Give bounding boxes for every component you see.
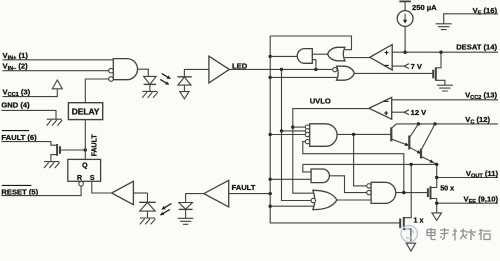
node junction bus G3 input bbox=[269, 133, 272, 136]
svg-text:VEE (9,10): VEE (9,10) bbox=[464, 195, 499, 206]
svg-text:+: + bbox=[384, 111, 388, 118]
wire VCC1 bbox=[3, 89, 58, 97]
wire DELAY up to input gate bbox=[85, 79, 109, 103]
svg-text:250 µA: 250 µA bbox=[412, 3, 437, 12]
transistor 50x DMOS bbox=[428, 186, 431, 199]
wire G1 output to bus bbox=[270, 55, 297, 57]
wire PD2 top stub bbox=[147, 193, 149, 202]
svg-text:R: R bbox=[77, 175, 82, 182]
ground LED1 rake bbox=[142, 91, 158, 97]
and-gate G3 drive AND bbox=[310, 124, 337, 147]
wire FAULT pin bbox=[1, 142, 57, 146]
svg-text:12 V: 12 V bbox=[411, 108, 428, 117]
wire G2b output to DESAT FET gate bbox=[354, 72, 433, 74]
node junction VEE bbox=[435, 202, 438, 205]
and-gate G0 input AND bbox=[113, 59, 137, 80]
node VCC2 pin 13 label bbox=[465, 90, 497, 101]
node junction bus G4b input bbox=[269, 205, 272, 208]
node junction x281 to G3 bbox=[280, 129, 283, 132]
or-gate G4b bbox=[313, 190, 337, 209]
svg-text:50 x: 50 x bbox=[440, 184, 454, 193]
node 7V source arrow bbox=[404, 64, 409, 69]
wire S input from fault buffer bbox=[92, 181, 112, 193]
node R input bubble bbox=[79, 181, 84, 186]
node DESAT pin 14 label bbox=[456, 43, 497, 52]
wire UVLO branch to G3 bubble1 bbox=[293, 126, 306, 128]
wire emitter node to VOUT bbox=[436, 164, 438, 177]
diode LED1 transmit bbox=[144, 76, 157, 84]
wire bus branch to G4b input3 bbox=[270, 205, 315, 207]
node VOUT pin 11 label bbox=[466, 169, 499, 180]
wire VOUT rail bbox=[437, 177, 498, 179]
wire 1x source bbox=[404, 229, 411, 243]
node VEE pins 9 10 label bbox=[464, 195, 499, 206]
svg-text:+: + bbox=[384, 50, 388, 57]
svg-text:DELAY: DELAY bbox=[72, 107, 100, 117]
transistor 1x DMOS bbox=[400, 217, 404, 230]
wire G4a output to G5 bubble2 bbox=[329, 176, 366, 193]
node G3 bubble3 bbox=[305, 132, 309, 136]
node G0 bubble VIN- bbox=[109, 68, 114, 73]
current source 250uA bbox=[399, 0, 410, 2]
svg-text:−: − bbox=[384, 97, 389, 106]
wire G2b line from bus bbox=[270, 76, 338, 78]
node junction LED line / x281 bbox=[280, 68, 283, 71]
transistor Q3 bbox=[420, 149, 422, 159]
transistor fault open-drain FET bbox=[57, 144, 60, 156]
svg-text:FAULT: FAULT bbox=[92, 134, 99, 157]
op-amp UVLO comparator bbox=[369, 97, 392, 119]
node 12V source arrow bbox=[404, 110, 409, 115]
svg-text:DESAT (14): DESAT (14) bbox=[456, 43, 497, 52]
node VIN- pin 2 label bbox=[3, 62, 29, 73]
or-gate G2b fault OR bbox=[337, 66, 355, 80]
node G4b input bubble bbox=[311, 198, 315, 202]
transistor DESAT discharge FET bbox=[433, 67, 436, 80]
light arrows LED1 to PD1 bbox=[160, 74, 170, 85]
wire G0 output to LED1 bbox=[138, 69, 149, 76]
wire G5 output to 50x gate bbox=[396, 192, 428, 194]
wire RESET bbox=[1, 186, 81, 196]
node junction DESAT current source bbox=[403, 51, 406, 54]
wire G1 lower input stub to LED line bbox=[312, 60, 316, 70]
wire DESAT FET drain bbox=[436, 52, 441, 68]
node G5 bubble1 bbox=[367, 184, 371, 188]
watermark text dianzijishukong bbox=[427, 228, 491, 241]
wire VEE rail bbox=[437, 202, 498, 204]
op-amp LED buffer triangle bbox=[209, 56, 229, 83]
wire LED2 anode from fault driver bbox=[186, 194, 204, 203]
node junction DESAT FET drain bbox=[439, 51, 442, 54]
and-gate G4a bbox=[311, 169, 329, 183]
ground FAULT FET rake bbox=[44, 162, 60, 168]
wire DESAT line bbox=[392, 51, 498, 53]
node junction G5 out feedback bbox=[402, 191, 405, 194]
watermark icon circle bbox=[401, 226, 417, 242]
wire DESAT FET source bbox=[436, 80, 445, 85]
node junction VOUT bbox=[435, 176, 438, 179]
node GND pin 4 label bbox=[1, 101, 30, 110]
wire VOUT sense line bbox=[303, 163, 437, 165]
transistor Q2 bbox=[408, 136, 410, 150]
node VIN+ pin 1 label bbox=[3, 51, 29, 62]
wire sense corner to G4a input1 bbox=[303, 164, 311, 172]
wire VCC2 line bbox=[392, 99, 498, 101]
node RESET pin 5 label bbox=[1, 185, 38, 196]
node G3 bubble1 bbox=[305, 125, 309, 129]
node junction sense 1x drain bbox=[410, 163, 413, 166]
wire LED1 cathode bbox=[149, 84, 151, 91]
node junction UVLO to G3 bbox=[291, 125, 294, 128]
node G3 bubble4 bbox=[305, 139, 309, 143]
wire branch down to G5 bubble1 bbox=[354, 134, 367, 186]
wire 1x drain vertical bbox=[404, 164, 411, 217]
or-gate G2 mirrored bbox=[328, 47, 345, 61]
wire 50x source bbox=[431, 199, 437, 204]
node junction LED line / G1 stub bbox=[314, 68, 317, 71]
node LED label bbox=[232, 61, 248, 70]
wire bus branch to G3 bubble3 bbox=[270, 134, 305, 136]
wire FET source to ground bbox=[51, 155, 57, 162]
node junction emitter sense bbox=[435, 163, 438, 166]
wire 7V ref stub bbox=[392, 65, 404, 67]
svg-text:7 V: 7 V bbox=[411, 62, 423, 71]
node junction VC Q3 bbox=[433, 122, 436, 125]
node VE pin 16 label bbox=[473, 6, 498, 16]
ground DESAT FET earth bbox=[437, 85, 453, 91]
wire latch Q up to DELAY bbox=[84, 120, 86, 160]
ground VE earth bbox=[436, 24, 452, 30]
node G0 bubble delay bbox=[109, 77, 114, 82]
wire x281 vertical LED branch bbox=[282, 69, 311, 200]
ground PD2 rake bbox=[140, 218, 156, 224]
wire branch to G3 bubble2 bbox=[282, 130, 306, 132]
node 1x label bbox=[414, 215, 424, 224]
wire UVLO output line bbox=[293, 109, 369, 194]
transistor Q1 bbox=[390, 127, 392, 141]
wire FET gate to FAULT net bbox=[60, 149, 85, 151]
op-amp FAULT driver triangle bbox=[204, 180, 229, 207]
node VC pin 12 label bbox=[465, 115, 490, 126]
and-gate G1 mirrored bbox=[297, 49, 312, 64]
wire 12V ref stub bbox=[392, 111, 405, 113]
flip-flop latch box bbox=[68, 159, 101, 181]
svg-text:S: S bbox=[90, 175, 95, 182]
node VEE down arrow bbox=[432, 213, 442, 221]
wire VIN- bbox=[3, 70, 109, 72]
svg-text:UVLO: UVLO bbox=[310, 97, 331, 106]
svg-text:VOUT (11): VOUT (11) bbox=[466, 169, 499, 180]
wire LED buffer output to logic bbox=[229, 68, 333, 70]
svg-text:FAULT (6): FAULT (6) bbox=[1, 133, 37, 142]
and-gate G5 big AND bbox=[371, 182, 396, 203]
svg-text:1 x: 1 x bbox=[414, 215, 424, 224]
wire comparator out to G2 input bbox=[345, 57, 370, 59]
node G5 bubble2 bbox=[367, 190, 371, 194]
op-amp DESAT comparator bbox=[370, 45, 392, 70]
svg-text:GND (4): GND (4) bbox=[1, 101, 30, 110]
wire VC rail bbox=[391, 124, 498, 128]
node 50x label bbox=[440, 184, 454, 193]
wire PD1 bottom stub bbox=[183, 85, 185, 92]
ground LED2 earth bbox=[178, 218, 194, 224]
node junction G3 out branch bbox=[352, 133, 355, 136]
ground GND rake bbox=[47, 119, 63, 125]
node junction VC Q2 bbox=[417, 122, 420, 125]
svg-text:Q: Q bbox=[82, 162, 88, 169]
svg-text:VC (12): VC (12) bbox=[465, 115, 490, 126]
node VCC1 pin 3 label bbox=[3, 88, 31, 99]
wire feedback 50x gate to G3 bubble4 bbox=[303, 142, 404, 193]
svg-text:−: − bbox=[384, 61, 389, 70]
op-amp fault receive buffer bbox=[112, 181, 134, 204]
node G3 bubble2 bbox=[305, 129, 309, 133]
wire G2 output to G1 input bbox=[312, 53, 327, 55]
svg-text:VCC2 (13): VCC2 (13) bbox=[465, 90, 497, 101]
wire PD2 bottom stub bbox=[147, 211, 149, 218]
wire G4b output to G5 input3 bbox=[337, 199, 371, 201]
delay block DELAY bbox=[68, 103, 102, 120]
wire G3 output to Q1 base bbox=[337, 133, 391, 135]
diode LED2 transmit bbox=[179, 203, 193, 210]
power VCC1 up-arrow bbox=[52, 80, 62, 89]
svg-text:FAULT: FAULT bbox=[232, 183, 256, 192]
node FAULT label mid bbox=[232, 183, 256, 192]
node FAULT vertical net label bbox=[92, 134, 99, 157]
node UVLO label bbox=[310, 97, 331, 106]
wire PD1 top to buffer bbox=[184, 69, 209, 76]
wire LED2 cathode bbox=[185, 209, 187, 218]
node PD1 down arrow bbox=[180, 92, 189, 99]
wire frame top to G2 input bbox=[270, 36, 351, 50]
diode PD1 receive bbox=[178, 77, 192, 85]
node junction FET gate / delay line bbox=[84, 148, 87, 151]
wire bus branch to G4a input2 bbox=[270, 178, 311, 180]
wire VE pin bbox=[444, 14, 498, 24]
wire FAULT driver input from bus bbox=[229, 193, 271, 195]
wire left fault buffer out to S bbox=[133, 192, 147, 194]
node junction bus fault bbox=[269, 192, 272, 195]
light arrows LED2 to PD2 bbox=[161, 204, 172, 215]
node junction bus G1 out bbox=[269, 55, 272, 58]
wire VEE arrow stub bbox=[436, 203, 438, 213]
wire VIN+ bbox=[3, 59, 114, 61]
node G2b input bubble bbox=[333, 67, 337, 71]
node 1x down arrow bbox=[406, 243, 415, 251]
node FAULT pin 6 label bbox=[1, 131, 37, 142]
wire GND bbox=[1, 110, 56, 119]
svg-text:VE (16): VE (16) bbox=[473, 6, 498, 16]
node junction bus G4a input bbox=[269, 178, 272, 181]
wire 50x drain bbox=[431, 178, 437, 188]
wire main vertical bus bbox=[270, 36, 400, 223]
node junction bus G2b line bbox=[269, 76, 272, 79]
diode PD2 receive bbox=[139, 202, 156, 211]
